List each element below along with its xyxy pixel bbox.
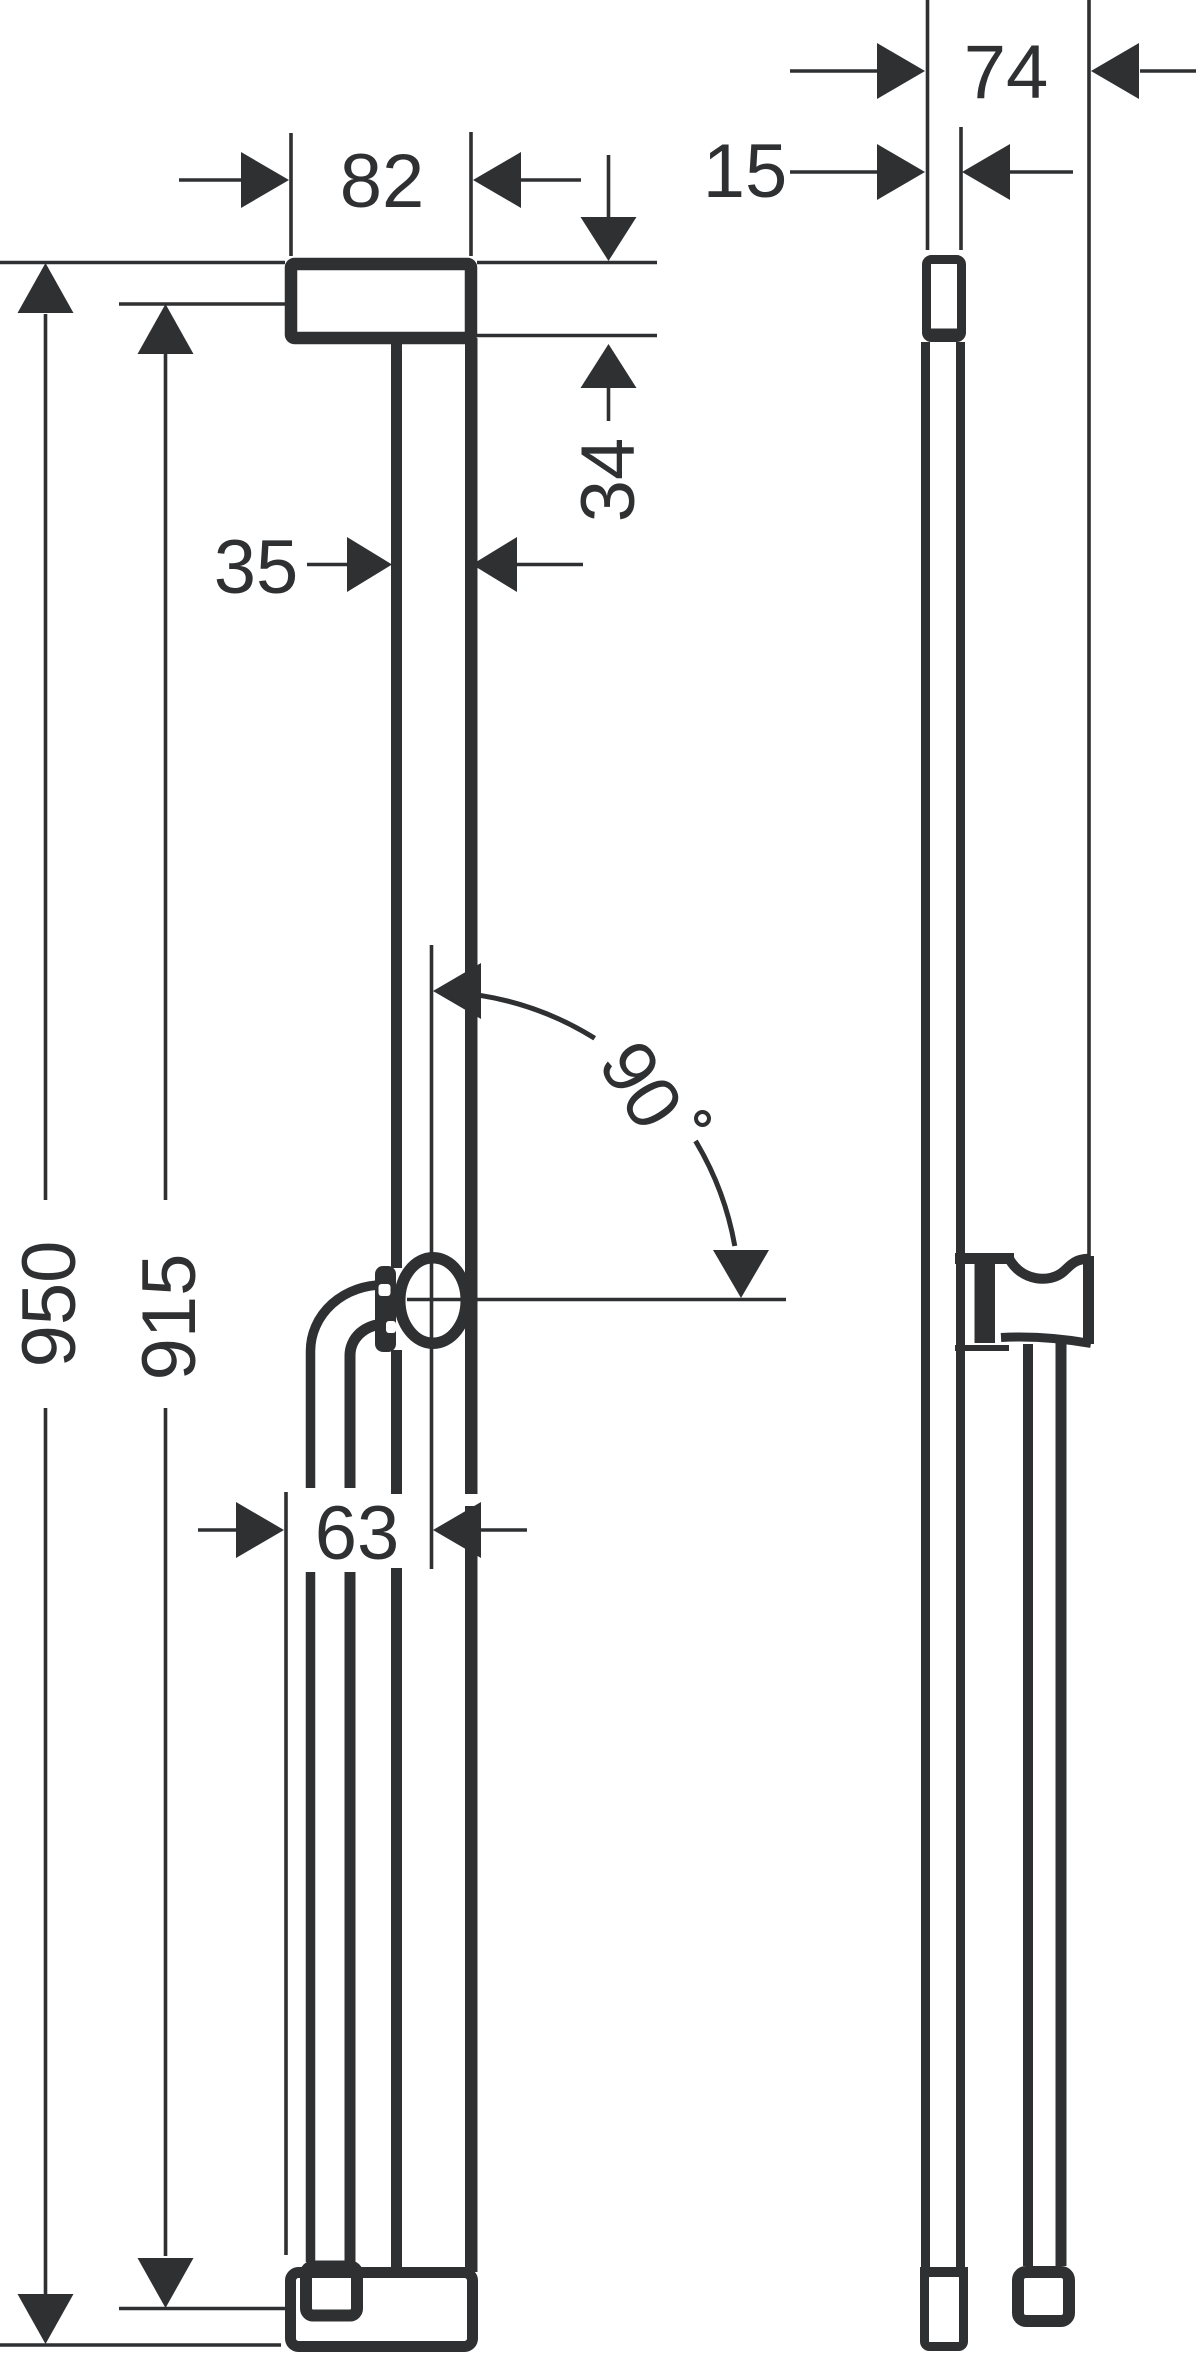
svg-text:74: 74 [964,30,1049,115]
svg-text:915: 915 [127,1254,212,1381]
svg-text:15: 15 [703,129,788,214]
svg-text:950: 950 [7,1241,92,1368]
svg-text:34: 34 [566,438,651,523]
svg-text:82: 82 [340,139,425,224]
svg-text:63: 63 [315,1491,400,1576]
svg-text:35: 35 [214,525,299,610]
